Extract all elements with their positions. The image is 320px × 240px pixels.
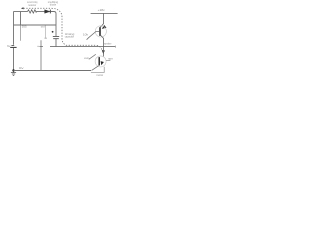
wire Q2 emitter to rail [92, 66, 99, 71]
svg-text:npn: npn [108, 58, 114, 60]
transistor Q1 circle [95, 26, 106, 37]
svg-text:10k: 10k [83, 34, 89, 37]
capacitor C1 top lead [55, 25, 57, 36]
Q1 emitter arrow [102, 25, 107, 29]
wire supply vertical left [13, 12, 15, 45]
svg-text:capacitor: capacitor [65, 36, 74, 39]
wire pin to rail [20, 12, 22, 26]
wire Q1 base lead [87, 32, 100, 40]
wire bottom rail [14, 70, 92, 72]
wire resistor to diode [36, 11, 44, 13]
transistor Q1 base bar [99, 27, 101, 36]
wire Q2 hook [91, 67, 104, 73]
wire Q1 collector down [100, 35, 103, 47]
svg-text:555: 555 [22, 26, 28, 29]
transistor Q2 emitter arrow [101, 61, 104, 65]
ground junction dot [12, 69, 14, 71]
wire Vcc top rail [14, 11, 28, 13]
terminal nub [114, 46, 116, 48]
capacitor C1 plates [53, 36, 59, 38]
wire diode to corner down [51, 12, 56, 26]
battery B1 plates [11, 44, 14, 46]
svg-text:0v: 0v [19, 67, 25, 70]
transistor Q2 base bar [98, 57, 100, 65]
IC box U1 right edge [45, 25, 47, 39]
svg-text:resistor: resistor [28, 4, 36, 7]
junction tick on x41 [39, 46, 43, 48]
capacitor C1 bottom lead [55, 39, 57, 47]
right rail Vs [91, 12, 118, 14]
wire horizontal y25 [14, 24, 57, 26]
leader line to Q2 [89, 54, 96, 59]
svg-text:diode: diode [50, 4, 57, 7]
pin label mark [44, 38, 47, 39]
wire supply to ground [13, 48, 15, 71]
ground symbol [13, 71, 15, 73]
wire Q1 emitter to rail [100, 13, 103, 27]
wire pin down x41 [40, 40, 42, 70]
wire long horizontal y46.5 [50, 46, 115, 48]
dashed annotation path [24, 8, 102, 49]
wire junction down to Q2 [103, 47, 105, 57]
dashed annotation arrowhead right [102, 50, 105, 54]
svg-text:speaker: speaker [104, 43, 112, 46]
wire Q2 right lead [106, 59, 110, 61]
tick dot [37, 46, 38, 47]
node arrow dot [52, 31, 54, 33]
svg-text:motor: motor [96, 74, 103, 77]
dashed annotation arrowhead left [21, 7, 24, 9]
svg-text:out: out [84, 57, 89, 60]
diode D1 [45, 10, 50, 14]
svg-text:out: out [41, 25, 45, 28]
svg-text:+18v: +18v [98, 8, 106, 12]
resistor R1 [28, 10, 38, 13]
transistor Q2 circle [95, 56, 106, 67]
IC box U1 left edge [20, 25, 22, 41]
